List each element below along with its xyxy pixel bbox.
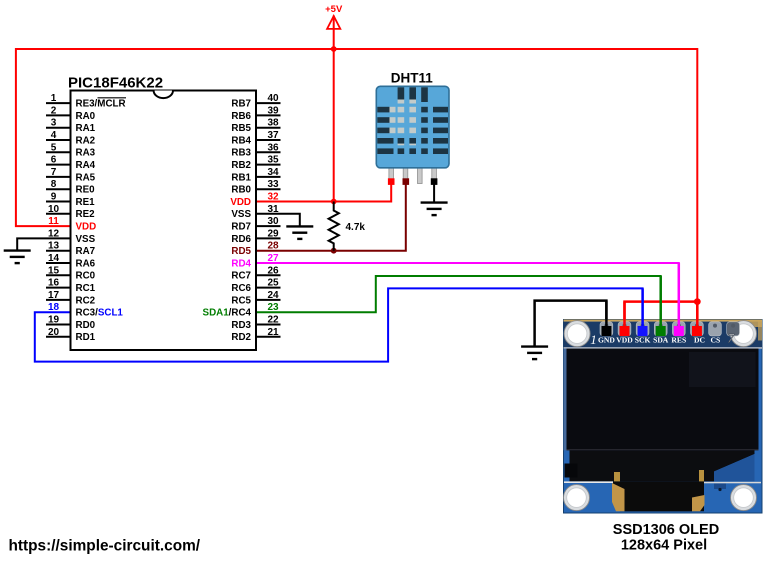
svg-text:VSS: VSS <box>76 234 96 245</box>
svg-text:128x64 Pixel: 128x64 Pixel <box>621 538 707 554</box>
svg-text:1: 1 <box>590 332 597 347</box>
OLED SDA terminal <box>656 326 666 336</box>
svg-text:9: 9 <box>51 192 57 203</box>
pin 31 VSS <box>231 204 279 220</box>
OLED DC terminal <box>692 326 702 336</box>
svg-text:7: 7 <box>727 331 734 346</box>
svg-text:20: 20 <box>48 327 60 338</box>
pin 14 RA6 <box>46 253 96 269</box>
svg-text:12: 12 <box>48 228 60 239</box>
pin 20 RD1 <box>46 327 96 343</box>
svg-text:36: 36 <box>267 142 279 153</box>
svg-text:https://simple-circuit.com/: https://simple-circuit.com/ <box>9 537 201 554</box>
svg-text:SSD1306 OLED: SSD1306 OLED <box>613 522 719 538</box>
svg-text:RD6: RD6 <box>231 234 251 245</box>
svg-text:11: 11 <box>48 216 59 227</box>
pin 5 RA3 <box>46 142 96 158</box>
svg-text:2: 2 <box>51 105 57 116</box>
pin 16 RC1 <box>46 278 96 294</box>
pin 19 RD0 <box>46 315 96 331</box>
wire pin 31 VSS to ground <box>256 214 300 227</box>
OLED SCK terminal <box>638 326 648 336</box>
wire pin 12 VSS to ground <box>17 238 70 250</box>
svg-text:RB6: RB6 <box>231 111 251 122</box>
svg-text:RD3: RD3 <box>231 320 251 331</box>
svg-text:RB7: RB7 <box>231 99 251 110</box>
svg-text:RD4: RD4 <box>231 258 251 269</box>
ground (PIC pin 12 VSS) <box>4 251 31 264</box>
svg-text:RB5: RB5 <box>231 123 251 134</box>
sensor DHT11 <box>376 71 449 184</box>
DHT11 pin2 terminal (dark red) <box>403 178 410 185</box>
pin 2 RA0 <box>46 105 96 121</box>
svg-text:29: 29 <box>267 228 279 239</box>
wire +5V vertical from symbol down to resistor junction <box>333 16 335 202</box>
svg-text:RA3: RA3 <box>76 148 96 159</box>
OLED pin labels <box>590 331 734 348</box>
svg-text:RA4: RA4 <box>76 160 96 171</box>
pin 8 RE0 <box>46 179 95 195</box>
svg-text:RE0: RE0 <box>76 185 96 196</box>
pin 3 RA1 <box>46 118 96 134</box>
junction dot data/resistor bottom (dark red) <box>331 248 337 254</box>
svg-text:18: 18 <box>48 302 60 313</box>
pin 35 RB2 <box>231 155 280 171</box>
pin 13 RA7 <box>46 241 96 257</box>
pin 29 RD6 <box>231 228 280 244</box>
svg-text:RC3/SCL1: RC3/SCL1 <box>76 308 124 319</box>
OLED GND terminal <box>602 326 612 336</box>
svg-text:RC5: RC5 <box>231 295 251 306</box>
ground (DHT11 pin 4) <box>421 203 448 216</box>
pin 23 SDA1/RC4 <box>203 302 279 318</box>
OLED VDD terminal <box>620 326 630 336</box>
svg-text:RD1: RD1 <box>76 332 96 343</box>
svg-text:RES: RES <box>671 336 686 345</box>
pin 11 VDD <box>48 216 96 232</box>
pin 33 RB0 <box>231 179 280 195</box>
svg-text:VDD: VDD <box>76 222 97 233</box>
pin 28 RD5 <box>231 241 279 257</box>
pin 37 RB4 <box>231 130 280 146</box>
svg-text:7: 7 <box>51 167 57 178</box>
svg-text:22: 22 <box>267 315 279 326</box>
pin 9 RE1 <box>46 192 95 208</box>
svg-text:RD2: RD2 <box>231 332 251 343</box>
svg-text:6: 6 <box>51 155 57 166</box>
DHT11 pin1 terminal (red) <box>388 178 395 185</box>
wire OLED GND pad to ground <box>535 301 607 347</box>
pin 10 RE2 <box>46 204 95 220</box>
junction dot OLED VDD/DC branch <box>694 298 701 305</box>
svg-text:4.7k: 4.7k <box>346 222 366 233</box>
svg-text:38: 38 <box>267 118 279 129</box>
svg-text:3: 3 <box>51 118 57 129</box>
pin 39 RB6 <box>231 105 280 121</box>
svg-text:SDA1/RC4: SDA1/RC4 <box>203 308 252 319</box>
svg-text:RC0: RC0 <box>76 271 96 282</box>
svg-text:34: 34 <box>267 167 279 178</box>
svg-text:RB2: RB2 <box>231 160 251 171</box>
pin 36 RB3 <box>231 142 280 158</box>
pin 6 RA4 <box>46 155 96 171</box>
svg-text:5: 5 <box>51 142 57 153</box>
svg-text:RE2: RE2 <box>76 209 96 220</box>
svg-text:RB1: RB1 <box>231 172 251 183</box>
pin 15 RC0 <box>46 265 96 281</box>
svg-text:VSS: VSS <box>231 209 251 220</box>
svg-text:RA0: RA0 <box>76 111 96 122</box>
svg-text:33: 33 <box>267 179 279 190</box>
wire pin 23 SDA1/RC4 to OLED SDA (green) <box>256 276 661 330</box>
svg-text:35: 35 <box>267 155 279 166</box>
svg-text:31: 31 <box>267 204 279 215</box>
svg-text:CS: CS <box>711 336 721 345</box>
svg-text:21: 21 <box>267 327 279 338</box>
wire OLED DC pad drop (red) <box>696 302 699 330</box>
pin 40 RB7 <box>231 93 280 109</box>
svg-text:14: 14 <box>48 253 60 264</box>
svg-text:RC1: RC1 <box>76 283 96 294</box>
svg-text:40: 40 <box>267 93 279 104</box>
pin 26 RC7 <box>231 265 280 281</box>
svg-text:23: 23 <box>267 302 279 313</box>
svg-text:39: 39 <box>267 105 279 116</box>
wire +5V rail: left branch to pin 11, top rail, right branch down <box>16 49 697 302</box>
pin 7 RA5 <box>46 167 96 183</box>
svg-text:RA1: RA1 <box>76 123 96 134</box>
svg-text:4: 4 <box>51 130 57 141</box>
OLED RES terminal <box>674 326 684 336</box>
svg-text:RB3: RB3 <box>231 148 251 159</box>
pin 21 RD2 <box>231 327 280 343</box>
svg-text:RD0: RD0 <box>76 320 96 331</box>
svg-text:DHT11: DHT11 <box>391 71 434 86</box>
wire OLED VDD pad branch (red) <box>625 302 698 330</box>
svg-text:10: 10 <box>48 204 60 215</box>
svg-text:30: 30 <box>267 216 279 227</box>
pin 27 RD4 <box>231 253 279 269</box>
svg-text:19: 19 <box>48 315 60 326</box>
svg-text:DC: DC <box>694 336 705 345</box>
svg-text:PIC18F46K22: PIC18F46K22 <box>68 74 163 91</box>
svg-text:RC7: RC7 <box>231 271 251 282</box>
svg-text:VDD: VDD <box>616 336 633 345</box>
svg-text:RD7: RD7 <box>231 222 251 233</box>
wire pin 27 RD4 to OLED RES (magenta) <box>256 263 679 330</box>
svg-text:GND: GND <box>598 336 615 345</box>
svg-text:SDA: SDA <box>653 336 669 345</box>
svg-text:RD5: RD5 <box>231 246 251 257</box>
wire DHT11 data to pin 28 RD5 (dark red) <box>256 181 406 251</box>
DHT11 pin4 terminal (black) <box>431 178 438 185</box>
svg-text:37: 37 <box>267 130 279 141</box>
junction dot +5V rail top <box>331 46 337 52</box>
power symbol +5V <box>325 4 343 29</box>
svg-text:15: 15 <box>48 265 60 276</box>
svg-text:RA5: RA5 <box>76 172 96 183</box>
svg-text:+5V: +5V <box>325 4 343 15</box>
pin 38 RB5 <box>231 118 280 134</box>
pin 32 VDD <box>230 192 279 208</box>
svg-text:16: 16 <box>48 278 60 289</box>
wire DHT11 pin4 to ground <box>433 181 435 203</box>
ground (PIC pin 31 VSS) <box>286 226 313 239</box>
svg-text:RB4: RB4 <box>231 135 251 146</box>
pin 18 RC3/SCL1 <box>48 302 123 318</box>
svg-text:RA7: RA7 <box>76 246 96 257</box>
pin 17 RC2 <box>46 290 96 306</box>
svg-text:RA6: RA6 <box>76 258 96 269</box>
pin 12 VSS <box>48 228 96 244</box>
svg-text:24: 24 <box>267 290 279 301</box>
wire VDD pin 32 to DHT11 pin1 (red) <box>256 181 391 202</box>
svg-text:25: 25 <box>267 278 279 289</box>
wire pin 18 RC3/SCL1 to OLED SCK (blue) <box>35 288 643 361</box>
pin 4 RA2 <box>46 130 96 146</box>
svg-text:28: 28 <box>267 241 279 252</box>
svg-text:26: 26 <box>267 265 279 276</box>
pin 1 RE3/MCLR <box>46 93 126 109</box>
pin 25 RC6 <box>231 278 280 294</box>
svg-text:RA2: RA2 <box>76 135 96 146</box>
svg-text:1: 1 <box>51 93 57 104</box>
svg-text:17: 17 <box>48 290 60 301</box>
svg-text:RE1: RE1 <box>76 197 96 208</box>
svg-text:RC6: RC6 <box>231 283 251 294</box>
wire drops onto OLED pads <box>606 263 697 327</box>
ground (OLED GND) <box>521 347 548 360</box>
junction dot VDD/resistor top <box>331 199 337 205</box>
pin 24 RC5 <box>231 290 280 306</box>
resistor R1 4.7k <box>329 202 366 251</box>
svg-text:32: 32 <box>267 192 279 203</box>
svg-text:27: 27 <box>267 253 279 264</box>
op-amp / IC U1 PIC18F46K22 body <box>68 74 256 350</box>
svg-text:VDD: VDD <box>230 197 251 208</box>
svg-text:RC2: RC2 <box>76 295 96 306</box>
svg-text:RE3/MCLR: RE3/MCLR <box>76 99 126 110</box>
display module SSD1306 OLED board <box>564 320 763 514</box>
svg-text:13: 13 <box>48 241 60 252</box>
pin 34 RB1 <box>231 167 280 183</box>
svg-text:SCK: SCK <box>635 336 651 345</box>
svg-text:8: 8 <box>51 179 57 190</box>
pin 22 RD3 <box>231 315 280 331</box>
pin 30 RD7 <box>231 216 280 232</box>
svg-text:RB0: RB0 <box>231 185 251 196</box>
OLED terminal squares (over wires) <box>602 326 702 336</box>
